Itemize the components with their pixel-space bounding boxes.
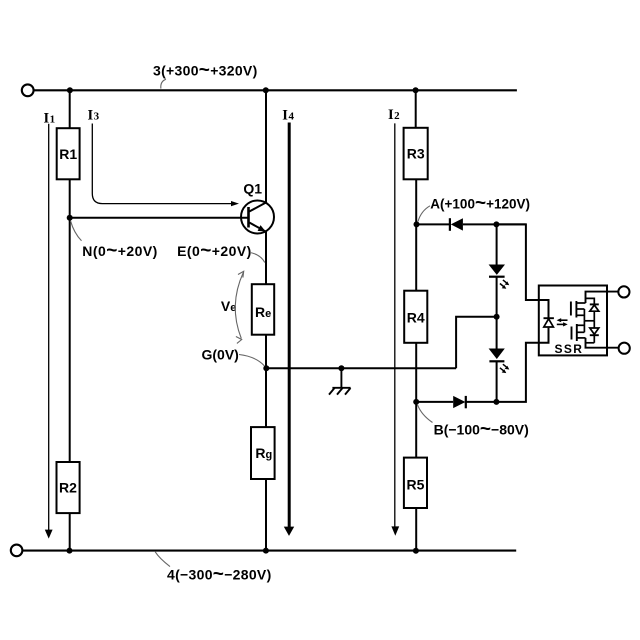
resistor R4: [404, 291, 427, 343]
leader for label 3: [161, 79, 166, 88]
svg-text:I1: I1: [44, 110, 56, 126]
Ve curved double arrow: [235, 271, 243, 343]
terminal 3 (top-left open circle): [22, 84, 34, 96]
svg-text:3(+300~+320V): 3(+300~+320V): [153, 60, 258, 81]
wire right column top (rail to R3): [415, 90, 417, 128]
transistor Q1: [241, 201, 274, 234]
wire top rail (net 3): [34, 89, 517, 91]
diode B (pointing right, cathode right): [453, 396, 466, 408]
junction dot LED bottom: [493, 399, 499, 405]
node G junction dot: [263, 365, 269, 371]
wire MOSFET sources to body diodes (mid link): [584, 320, 594, 322]
MOSFET M2 (bottom): [572, 321, 586, 341]
leader for node B: [418, 405, 433, 423]
leader for node G: [239, 355, 265, 367]
wire R4 to node B: [415, 343, 417, 402]
resistor Rg: [251, 427, 275, 479]
junction dot R5 at bottom rail: [413, 548, 419, 554]
node B junction dot: [413, 399, 419, 405]
resistor R2: [57, 462, 80, 513]
svg-text:R5: R5: [407, 477, 425, 493]
svg-text:E(0~+20V): E(0~+20V): [177, 241, 252, 262]
leader for label 4: [155, 552, 170, 567]
resistor R5: [404, 458, 427, 508]
resistor R3: [404, 128, 428, 180]
wire node A to R4: [415, 224, 417, 290]
svg-text:R4: R4: [407, 310, 425, 326]
wire node G to Rg: [265, 368, 267, 427]
wire Rg to bottom rail: [265, 479, 267, 551]
svg-text:R3: R3: [407, 146, 425, 162]
body diode D4 (pointing down): [590, 321, 599, 343]
svg-text:N(0~+20V): N(0~+20V): [82, 241, 157, 262]
LED D2: [489, 349, 510, 374]
wire Re to node G: [265, 335, 267, 369]
wire R5 to bottom rail: [415, 508, 417, 551]
wire R1 to node N: [69, 179, 71, 218]
wire LED2 to bottom junction: [496, 361, 498, 402]
junction dot ground tap: [338, 365, 344, 371]
wire collector (rail to Q1): [265, 90, 267, 203]
svg-text:4(−300~−280V): 4(−300~−280V): [167, 564, 272, 585]
wire node A to diode A: [416, 223, 450, 225]
SSR box: [539, 286, 607, 356]
junction dot LED mid: [494, 314, 500, 320]
wire node B to diode B: [416, 401, 453, 403]
junction dot LED top: [493, 221, 499, 227]
wire node N to R2: [69, 218, 71, 462]
node A junction dot: [414, 221, 420, 227]
terminal output 1 (open circle): [618, 286, 629, 297]
wire emitter (Q1 to Re): [265, 231, 267, 284]
wire diode D4 tap: [586, 342, 595, 344]
svg-text:I4: I4: [282, 108, 294, 124]
wire diode A to LED column: [463, 223, 526, 225]
wire drain 2 to output 2: [586, 338, 619, 348]
MOSFET M1 (top): [571, 301, 586, 321]
wire drain 1 to output 1: [586, 292, 619, 303]
current arrow I3 (down then right to Q1 base): [92, 124, 239, 207]
wire SSR input 1 (LED top junction to SSR): [496, 224, 548, 318]
wire LED mid riser (to G wire): [456, 317, 497, 369]
wire LED1 to mid junction: [496, 277, 498, 349]
junction dot Rg at bottom rail: [263, 548, 269, 554]
wire base (node N to Q1): [70, 217, 249, 219]
ground: [329, 368, 351, 394]
svg-text:A(+100~+120V): A(+100~+120V): [430, 193, 530, 214]
SSR photodiode: [544, 318, 554, 327]
terminal 4 (bottom-left open circle): [11, 545, 23, 557]
wire node B to R5: [415, 402, 417, 458]
terminal output 2 (open circle): [619, 343, 630, 354]
svg-text:I3: I3: [88, 107, 100, 123]
wire node G horizontal (G to LED mid riser): [266, 367, 456, 369]
junction dot left bottom rail: [67, 548, 73, 554]
resistor R1: [57, 128, 80, 179]
wire diode D3 tap: [586, 298, 595, 304]
svg-text:I2: I2: [388, 107, 400, 123]
svg-text:G(0V): G(0V): [202, 346, 239, 362]
wire SSR input 1 inside box: [539, 300, 549, 318]
wire bottom rail (net 4): [23, 550, 516, 552]
wire SSR input 2 inside box: [539, 328, 549, 343]
svg-text:R2: R2: [59, 480, 77, 496]
wire R2 to bottom rail: [69, 513, 71, 551]
diode A (cathode left, pointing left): [450, 218, 463, 231]
junction dot left top rail: [67, 87, 73, 93]
current arrow I4 (thick): [284, 123, 294, 536]
svg-text:R1: R1: [59, 146, 77, 162]
svg-text:SSR: SSR: [555, 342, 584, 356]
svg-text:Q1: Q1: [243, 181, 262, 197]
wire R3 to node A: [415, 179, 417, 224]
junction dot right top rail: [413, 87, 419, 93]
leader for node N: [71, 221, 82, 241]
leader for node A: [418, 206, 430, 222]
current arrow I1: [45, 124, 53, 539]
SSR light arrows: [557, 318, 568, 326]
resistor Re: [252, 284, 274, 335]
leader for label E: [250, 253, 265, 263]
wire SSR input 2 (LED bottom junction to SSR): [496, 328, 548, 402]
wire LED top junction down to LED1: [496, 224, 498, 266]
junction dot collector at top rail: [263, 87, 269, 93]
LED D1: [489, 265, 510, 289]
wire left column top (rail to R1): [69, 90, 71, 128]
body diode D3 (pointing up): [590, 304, 599, 320]
current arrow I2: [391, 123, 399, 535]
wire diode B to LED bottom junction: [466, 401, 497, 403]
node N junction dot: [67, 215, 73, 221]
svg-text:B(−100~−80V): B(−100~−80V): [434, 419, 529, 440]
